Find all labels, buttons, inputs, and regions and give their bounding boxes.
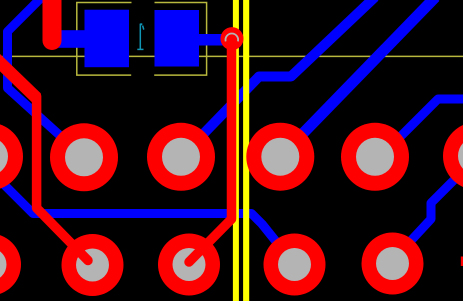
pad P3B (through-hole, bottom row) xyxy=(158,234,220,296)
pad P4B (through-hole, bottom row) xyxy=(264,234,326,296)
yellow rat/guide line 1 xyxy=(233,0,239,301)
component outline C1 (left half bracket) xyxy=(77,3,132,76)
pad P2B (through-hole, bottom row) xyxy=(62,234,124,296)
wire: red trace left edge to pad P2B (vertical + diagonal to pad) xyxy=(37,96,88,261)
wire: blue trace right edge to pad P5 xyxy=(377,99,463,151)
wire: blue stub right SMD pad to via V1 xyxy=(199,34,233,46)
pad P4 (through-hole, top row) xyxy=(246,123,314,191)
wire: red trace left edge to pad P2B (diagonal entry) xyxy=(0,54,37,98)
pad P1B (through-hole, bottom row, left edge) xyxy=(0,234,21,296)
SMD pad 1 of C1 xyxy=(85,10,130,67)
wire: blue long horizontal trace pad P1 to pad P4B xyxy=(0,161,295,265)
silkscreen guide line (long horizontal) xyxy=(3,55,463,57)
wire: blue Z-trace pad P3 to top edge xyxy=(181,0,375,157)
component outline C1 (right half bracket) xyxy=(154,3,206,76)
wire: blue diagonal pad P4 to top edge xyxy=(280,0,435,157)
wire: thick red trace from top edge xyxy=(43,0,62,41)
wire: red trace via V1 to pad P3B xyxy=(189,39,232,263)
via V1 xyxy=(221,27,244,50)
wire: blue trace top-left to pad P2 xyxy=(8,0,85,157)
pad P1 (through-hole, top row, left edge) xyxy=(0,123,23,191)
pad P2 (through-hole, top row) xyxy=(50,123,118,191)
pad P5 (through-hole, top row) xyxy=(341,123,409,191)
wire: blue stub left SMD pad to via xyxy=(52,30,85,48)
wire: blue trace pad P6 to pad P5B xyxy=(393,156,463,261)
yellow rat/guide line 2 xyxy=(243,0,249,301)
SMD pad 2 of C1 xyxy=(155,10,200,67)
pad P5B (through-hole, bottom row) xyxy=(362,233,424,295)
pad P6 (through-hole, top row, right edge) xyxy=(443,122,463,190)
red trace stub at right edge xyxy=(461,257,463,267)
pad P3 (through-hole, top row) xyxy=(147,123,215,191)
polarity symbol of C1 (cyan) xyxy=(137,23,144,49)
